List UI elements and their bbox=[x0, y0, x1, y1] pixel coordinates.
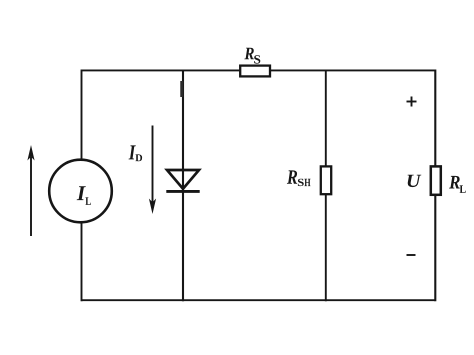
wire diode branch bbox=[182, 70, 184, 302]
current source I_L circle bbox=[49, 160, 112, 223]
resistor R_SH bbox=[321, 166, 331, 194]
arrow I_L current direction bbox=[27, 145, 34, 236]
label R_S bbox=[244, 48, 260, 64]
diode D1 bbox=[166, 170, 199, 191]
label U bbox=[408, 175, 422, 187]
arrow I_D current direction bbox=[149, 126, 156, 215]
resistor R_S bbox=[240, 66, 270, 77]
label R_L bbox=[449, 176, 466, 193]
label I_D bbox=[129, 145, 143, 161]
label R_SH bbox=[287, 170, 311, 186]
minus sign bbox=[407, 254, 416, 256]
wire shunt branch bbox=[325, 70, 327, 302]
wire right branch bbox=[434, 70, 436, 302]
wire left branch bbox=[81, 70, 83, 302]
label I_L bbox=[77, 186, 91, 205]
resistor R_L bbox=[431, 166, 441, 194]
wire bottom bbox=[82, 299, 436, 301]
junction smudge on diode branch bbox=[180, 81, 183, 97]
wire top bbox=[82, 69, 436, 71]
plus sign bbox=[407, 97, 417, 107]
